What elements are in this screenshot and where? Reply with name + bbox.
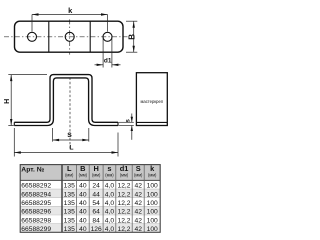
svg-text:4,0: 4,0 bbox=[105, 183, 115, 190]
svg-text:12,2: 12,2 bbox=[117, 191, 130, 198]
svg-text:(мм): (мм) bbox=[120, 173, 129, 178]
dimension B line bbox=[133, 21, 135, 52]
svg-text:42: 42 bbox=[134, 217, 142, 224]
dimension k extension line right (hole 3) bbox=[107, 15, 109, 32]
svg-text:66588294: 66588294 bbox=[21, 191, 51, 198]
svg-text:135: 135 bbox=[64, 226, 75, 233]
svg-text:d1: d1 bbox=[120, 164, 129, 173]
dimension S arrow left bbox=[53, 139, 60, 141]
svg-text:24: 24 bbox=[92, 183, 100, 190]
hole 1 bbox=[28, 32, 37, 41]
svg-text:S: S bbox=[67, 132, 72, 139]
dimension s arrow lower bbox=[131, 126, 133, 132]
svg-text:4,0: 4,0 bbox=[105, 226, 115, 233]
top view plate outline bbox=[15, 21, 124, 52]
top view: right bend line bbox=[89, 21, 91, 52]
svg-text:42: 42 bbox=[134, 183, 142, 190]
dimension k extension line left (hole 1) bbox=[31, 15, 33, 32]
front view hat profile: inner contour bbox=[14, 78, 118, 126]
dimension k arrow left bbox=[32, 13, 39, 15]
dimension H arrow bottom bbox=[10, 119, 12, 126]
dimension s extension line bottom bbox=[119, 125, 134, 127]
front view flange right end cap bbox=[117, 122, 119, 125]
dimension B arrow top bbox=[133, 21, 135, 28]
top view: left bend line bbox=[48, 21, 50, 52]
hole 2 bbox=[65, 32, 74, 41]
svg-text:66588298: 66588298 bbox=[21, 217, 51, 224]
svg-text:(мм): (мм) bbox=[148, 173, 157, 178]
svg-text:40: 40 bbox=[79, 226, 87, 233]
svg-text:40: 40 bbox=[79, 217, 87, 224]
svg-text:s: s bbox=[125, 119, 132, 123]
dimension s arrow line lower bbox=[131, 126, 133, 140]
svg-text:12,2: 12,2 bbox=[117, 183, 130, 190]
dimension k arrow right bbox=[101, 13, 108, 15]
dimension L line bbox=[14, 152, 118, 154]
table column separators bbox=[77, 165, 145, 233]
dimension B extension line bottom bbox=[126, 51, 137, 53]
front view flange left end cap bbox=[13, 122, 15, 125]
svg-text:4,0: 4,0 bbox=[105, 217, 115, 224]
dimension H arrow top bbox=[10, 75, 12, 82]
svg-text:126: 126 bbox=[91, 226, 102, 233]
dimension d1 arrow right bbox=[112, 64, 119, 66]
dimension s extension line top bbox=[119, 121, 134, 123]
svg-text:40: 40 bbox=[79, 209, 87, 216]
dimension L extension line right bbox=[117, 133, 119, 157]
dimension s arrow upper bbox=[131, 117, 133, 123]
svg-text:s: s bbox=[107, 164, 111, 173]
svg-text:135: 135 bbox=[64, 217, 75, 224]
svg-text:40: 40 bbox=[79, 191, 87, 198]
svg-text:B: B bbox=[127, 34, 136, 40]
svg-text:H: H bbox=[4, 99, 11, 104]
front view hat profile: outer contour bbox=[14, 75, 118, 123]
svg-text:100: 100 bbox=[147, 226, 158, 233]
table row 6 background bbox=[20, 224, 160, 233]
svg-text:42: 42 bbox=[134, 209, 142, 216]
table data rows bbox=[21, 183, 158, 233]
dimension S line bbox=[53, 139, 89, 141]
dimension L arrow right bbox=[112, 151, 119, 153]
svg-text:4,0: 4,0 bbox=[105, 209, 115, 216]
dimension d1 extension line left bbox=[102, 38, 104, 68]
dimension d1 extension line right bbox=[111, 38, 113, 68]
dimension H extension line bottom bbox=[8, 125, 14, 127]
svg-text:54: 54 bbox=[92, 200, 100, 207]
svg-text:12,2: 12,2 bbox=[117, 200, 130, 207]
table header underline bbox=[20, 179, 160, 181]
dimension B extension line top bbox=[126, 20, 137, 22]
svg-text:100: 100 bbox=[147, 183, 158, 190]
dimension s arrow line upper bbox=[131, 114, 133, 123]
svg-text:12,2: 12,2 bbox=[117, 217, 130, 224]
svg-text:135: 135 bbox=[64, 209, 75, 216]
dimension B arrow bottom bbox=[133, 46, 135, 53]
svg-text:H: H bbox=[93, 164, 98, 173]
svg-text:мастеркреп: мастеркреп bbox=[141, 99, 164, 104]
svg-text:12,2: 12,2 bbox=[117, 226, 130, 233]
svg-text:44: 44 bbox=[92, 191, 100, 198]
svg-text:Арт. №: Арт. № bbox=[21, 166, 44, 173]
svg-text:42: 42 bbox=[134, 200, 142, 207]
svg-text:L: L bbox=[67, 164, 72, 173]
svg-text:(мм): (мм) bbox=[79, 173, 88, 178]
table header units row bbox=[65, 173, 157, 178]
table thick separator after article column bbox=[61, 165, 63, 233]
dimension d1 arrow line left bbox=[95, 64, 104, 66]
dimension k line bbox=[32, 14, 108, 16]
svg-text:(мм): (мм) bbox=[105, 173, 114, 178]
svg-text:12,2: 12,2 bbox=[117, 209, 130, 216]
front view: vertical centerline bbox=[69, 78, 71, 149]
dimension L extension line left bbox=[13, 128, 15, 157]
table row 4 background bbox=[20, 206, 160, 215]
hole 3 bbox=[103, 32, 112, 41]
table row separator lines bbox=[20, 189, 160, 224]
dimension H extension line top bbox=[8, 74, 47, 76]
dimension d1 arrow line right bbox=[112, 64, 121, 66]
dimension S extension line left bbox=[52, 128, 54, 142]
svg-text:100: 100 bbox=[147, 200, 158, 207]
svg-text:84: 84 bbox=[92, 217, 100, 224]
svg-text:(мм): (мм) bbox=[134, 173, 143, 178]
svg-text:66588296: 66588296 bbox=[21, 209, 51, 216]
top view: horizontal centerline bbox=[4, 36, 128, 38]
dimension S arrow right bbox=[82, 139, 89, 141]
svg-text:100: 100 bbox=[147, 191, 158, 198]
svg-text:S: S bbox=[136, 164, 141, 173]
table outer border bbox=[20, 165, 160, 233]
svg-text:(мм): (мм) bbox=[65, 173, 74, 178]
dimension H line bbox=[10, 75, 12, 126]
svg-text:(мм): (мм) bbox=[92, 173, 101, 178]
svg-text:42: 42 bbox=[134, 226, 142, 233]
svg-text:L: L bbox=[69, 144, 73, 151]
table row 2 background bbox=[20, 189, 160, 198]
svg-text:4,0: 4,0 bbox=[105, 191, 115, 198]
svg-text:100: 100 bbox=[147, 209, 158, 216]
dimension L arrow left bbox=[14, 151, 20, 153]
svg-text:d1: d1 bbox=[104, 57, 112, 64]
svg-text:4,0: 4,0 bbox=[105, 200, 115, 207]
svg-text:135: 135 bbox=[64, 183, 75, 190]
side view rectangle bbox=[136, 73, 167, 126]
svg-text:40: 40 bbox=[79, 200, 87, 207]
svg-text:135: 135 bbox=[64, 191, 75, 198]
svg-text:64: 64 bbox=[92, 209, 100, 216]
svg-text:B: B bbox=[80, 164, 85, 173]
dimension S extension line right bbox=[88, 128, 90, 142]
svg-text:40: 40 bbox=[79, 183, 87, 190]
svg-text:135: 135 bbox=[64, 200, 75, 207]
dimension d1 arrow left bbox=[97, 64, 104, 66]
svg-text:66588299: 66588299 bbox=[21, 226, 51, 233]
table header background bbox=[20, 165, 160, 181]
svg-text:42: 42 bbox=[134, 191, 142, 198]
svg-text:100: 100 bbox=[147, 217, 158, 224]
svg-text:66588295: 66588295 bbox=[21, 200, 51, 207]
top view: vertical centerline through middle hole bbox=[69, 19, 71, 54]
svg-text:66588292: 66588292 bbox=[21, 183, 51, 190]
side view flange thickness line bbox=[136, 121, 167, 123]
